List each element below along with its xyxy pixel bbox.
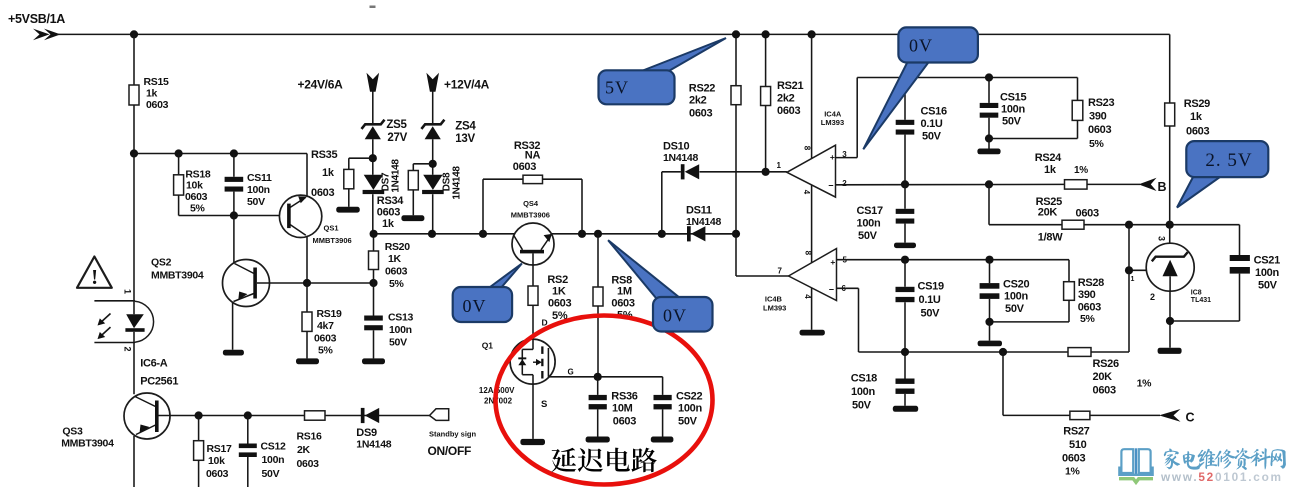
svg-text:1N4148: 1N4148: [390, 159, 401, 193]
svg-text:0603: 0603: [611, 298, 634, 310]
svg-text:RS22: RS22: [689, 83, 715, 95]
svg-text:LM393: LM393: [821, 118, 844, 127]
svg-text:DS10: DS10: [663, 141, 689, 153]
svg-text:100n: 100n: [262, 454, 285, 466]
svg-text:10k: 10k: [186, 180, 203, 192]
svg-text:MMBT3906: MMBT3906: [313, 236, 352, 245]
svg-text:3: 3: [1157, 236, 1167, 241]
svg-text:8: 8: [804, 251, 813, 256]
svg-text:0603: 0603: [689, 108, 712, 120]
svg-text:50V: 50V: [247, 196, 265, 208]
svg-text:0603: 0603: [185, 191, 208, 203]
svg-text:1%: 1%: [1074, 165, 1088, 176]
svg-text:CS17: CS17: [857, 205, 883, 217]
svg-text:20K: 20K: [1093, 371, 1113, 383]
svg-text:DS11: DS11: [686, 205, 712, 217]
svg-text:QS1: QS1: [324, 224, 339, 233]
svg-text:0603: 0603: [146, 99, 169, 111]
svg-text:CS18: CS18: [851, 373, 877, 385]
svg-text:100n: 100n: [857, 218, 881, 230]
svg-text:CS21: CS21: [1254, 255, 1280, 267]
svg-text:+12V/4A: +12V/4A: [444, 78, 490, 92]
svg-text:RS34: RS34: [377, 195, 404, 207]
svg-text:TL431: TL431: [1191, 297, 1211, 304]
svg-text:50V: 50V: [858, 230, 878, 242]
svg-text:Q1: Q1: [482, 341, 494, 351]
svg-text:2k2: 2k2: [689, 95, 707, 107]
svg-text:1N4148: 1N4148: [686, 216, 721, 228]
svg-text:390: 390: [1089, 111, 1107, 123]
svg-text:5V: 5V: [605, 78, 629, 98]
svg-text:RS26: RS26: [1093, 358, 1119, 370]
svg-text:Standby sign: Standby sign: [429, 430, 477, 439]
svg-text:50V: 50V: [1002, 116, 1022, 128]
svg-text:7: 7: [778, 266, 783, 275]
svg-text:1k: 1k: [1044, 164, 1057, 176]
svg-text:5%: 5%: [1089, 138, 1105, 150]
svg-text:1K: 1K: [388, 253, 402, 265]
svg-text:RS15: RS15: [144, 76, 170, 88]
svg-text:MMBT3906: MMBT3906: [511, 210, 550, 219]
svg-text:1N4148: 1N4148: [663, 152, 698, 164]
svg-text:0603: 0603: [1186, 126, 1209, 138]
svg-text:2k2: 2k2: [777, 93, 795, 105]
svg-text:CS15: CS15: [1000, 92, 1026, 104]
svg-text:1K: 1K: [552, 286, 566, 298]
svg-text:50V: 50V: [262, 468, 280, 480]
svg-text:5%: 5%: [190, 203, 206, 215]
svg-text:100n: 100n: [389, 324, 412, 336]
svg-text:RS19: RS19: [317, 308, 343, 320]
svg-text:1k: 1k: [146, 88, 158, 100]
svg-text:DS9: DS9: [356, 427, 377, 439]
svg-text:RS24: RS24: [1035, 152, 1062, 164]
svg-text:0.1U: 0.1U: [919, 294, 941, 306]
svg-text:510: 510: [1069, 439, 1087, 451]
svg-text:0603: 0603: [1088, 124, 1111, 136]
svg-text:4k7: 4k7: [317, 320, 334, 332]
svg-text:50V: 50V: [921, 308, 941, 320]
svg-text:1N4148: 1N4148: [451, 166, 462, 200]
svg-text:100n: 100n: [851, 386, 875, 398]
svg-text:2K: 2K: [297, 444, 311, 456]
svg-text:1: 1: [123, 289, 133, 294]
svg-text:50V: 50V: [852, 400, 872, 412]
svg-text:IC4B: IC4B: [765, 295, 783, 304]
svg-text:13V: 13V: [455, 133, 475, 145]
svg-text:0603: 0603: [377, 207, 400, 219]
svg-text:1k: 1k: [322, 167, 335, 179]
svg-text:CS12: CS12: [261, 441, 287, 453]
svg-text:+5VSB/1A: +5VSB/1A: [8, 12, 65, 26]
svg-text:1%: 1%: [1065, 466, 1081, 478]
svg-text:4: 4: [802, 190, 811, 195]
svg-text:1M: 1M: [617, 286, 632, 298]
svg-text:CS16: CS16: [921, 106, 947, 118]
svg-text:0603: 0603: [1076, 208, 1099, 220]
svg-text:10k: 10k: [208, 455, 225, 467]
svg-text:1k: 1k: [1190, 111, 1203, 123]
svg-text:10M: 10M: [612, 403, 633, 415]
svg-text:−: −: [829, 285, 834, 295]
svg-text:0603: 0603: [548, 298, 571, 310]
svg-text:1: 1: [1131, 276, 1135, 283]
svg-text:100n: 100n: [1001, 104, 1025, 116]
svg-text:0V: 0V: [663, 306, 687, 326]
svg-text:5%: 5%: [1080, 313, 1096, 325]
svg-text:8: 8: [803, 146, 812, 151]
svg-text:50V: 50V: [678, 416, 698, 428]
svg-text:0603: 0603: [311, 187, 334, 199]
svg-text:0603: 0603: [297, 458, 320, 470]
svg-text:LM393: LM393: [763, 304, 786, 313]
svg-text:50V: 50V: [389, 337, 407, 349]
svg-text:+: +: [830, 257, 835, 267]
svg-text:0603: 0603: [513, 161, 536, 173]
svg-text:C: C: [1186, 411, 1195, 425]
svg-text:CS19: CS19: [918, 281, 944, 293]
svg-text:RS28: RS28: [1078, 277, 1104, 289]
svg-text:1%: 1%: [1137, 378, 1153, 390]
svg-text:RS36: RS36: [611, 391, 637, 403]
svg-text:QS2: QS2: [151, 257, 172, 269]
svg-text:PC2561: PC2561: [140, 376, 178, 388]
svg-text:CS13: CS13: [388, 312, 414, 324]
svg-text:RS2: RS2: [547, 274, 568, 286]
svg-text:RS29: RS29: [1184, 98, 1210, 110]
svg-text:IC6-A: IC6-A: [140, 358, 168, 370]
svg-text:0603: 0603: [1062, 453, 1085, 465]
svg-text:4: 4: [803, 294, 812, 299]
svg-text:0603: 0603: [613, 416, 636, 428]
svg-text:0603: 0603: [206, 468, 229, 480]
svg-text:IC8: IC8: [1191, 290, 1202, 297]
svg-text:0603: 0603: [1078, 302, 1101, 314]
svg-text:1: 1: [777, 161, 782, 170]
svg-text:CS20: CS20: [1003, 279, 1029, 291]
svg-text:+: +: [830, 152, 835, 162]
svg-text:G: G: [568, 368, 574, 377]
svg-text:1/8W: 1/8W: [1038, 232, 1063, 244]
svg-text:QS4: QS4: [523, 199, 539, 208]
svg-text:20K: 20K: [1038, 207, 1058, 219]
svg-text:NA: NA: [525, 150, 541, 162]
svg-text:50V: 50V: [1258, 280, 1278, 292]
svg-text:S: S: [541, 399, 547, 410]
svg-text:+24V/6A: +24V/6A: [298, 78, 344, 92]
svg-text:RS20: RS20: [385, 241, 411, 253]
svg-text:MMBT3904: MMBT3904: [61, 438, 114, 450]
svg-text:ON/OFF: ON/OFF: [428, 444, 472, 458]
svg-text:RS23: RS23: [1088, 97, 1114, 109]
svg-text:50V: 50V: [1005, 303, 1025, 315]
svg-text:www.520101.com: www.520101.com: [1160, 470, 1283, 484]
svg-text:2N7002: 2N7002: [484, 397, 513, 406]
svg-text:100n: 100n: [678, 403, 702, 415]
svg-text:390: 390: [1078, 289, 1096, 301]
svg-text:0V: 0V: [463, 296, 487, 316]
svg-text:RS27: RS27: [1063, 426, 1089, 438]
svg-text:0603: 0603: [777, 105, 800, 117]
svg-text:100n: 100n: [1004, 291, 1028, 303]
svg-text:2: 2: [1150, 292, 1155, 302]
svg-text:2: 2: [123, 346, 133, 351]
svg-text:1N4148: 1N4148: [356, 439, 391, 451]
svg-text:CS22: CS22: [676, 391, 702, 403]
svg-text:0V: 0V: [909, 36, 933, 56]
svg-text:ZS4: ZS4: [455, 121, 476, 133]
svg-text:5%: 5%: [389, 278, 405, 290]
svg-text:ZS5: ZS5: [386, 119, 407, 131]
svg-text:1k: 1k: [382, 218, 395, 230]
svg-text:27V: 27V: [387, 132, 407, 144]
svg-text:B: B: [1158, 180, 1167, 194]
svg-text:CS11: CS11: [247, 172, 272, 184]
svg-text:RS21: RS21: [777, 80, 803, 92]
svg-text:RS17: RS17: [207, 443, 233, 455]
svg-text:5%: 5%: [318, 345, 334, 357]
svg-text:50V: 50V: [922, 131, 942, 143]
svg-text:0.1U: 0.1U: [921, 118, 943, 130]
svg-text:100n: 100n: [247, 184, 270, 196]
svg-text:QS3: QS3: [62, 426, 83, 438]
svg-text:2. 5V: 2. 5V: [1205, 150, 1252, 171]
svg-text:0603: 0603: [385, 266, 408, 278]
svg-text:!: !: [91, 265, 98, 289]
svg-text:−: −: [828, 181, 833, 191]
svg-text:2: 2: [842, 179, 847, 188]
svg-text:RS16: RS16: [297, 431, 323, 443]
svg-text:0603: 0603: [314, 333, 337, 345]
svg-text:RS35: RS35: [311, 149, 337, 161]
svg-text:MMBT3904: MMBT3904: [151, 270, 204, 282]
svg-text:0603: 0603: [1093, 385, 1116, 397]
svg-text:100n: 100n: [1255, 267, 1279, 279]
